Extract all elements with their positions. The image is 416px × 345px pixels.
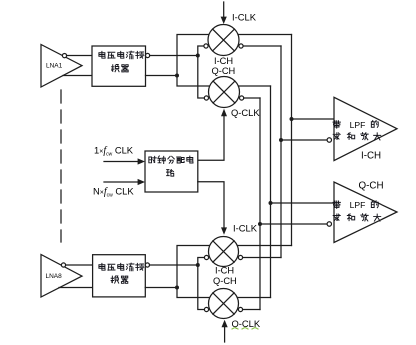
wire M1 out- to bus B [243, 45, 281, 47]
svg-text:Q-CLK: Q-CLK [231, 107, 260, 118]
wire bus D tap to Q amp [260, 223, 327, 225]
dashed separator (channels 2..7 omitted) [60, 90, 62, 242]
wire bus A tap to I amp [292, 118, 335, 120]
mixer M4 (Q mixer, channel 8) [209, 289, 239, 319]
inversion bubble on LNA1 output [62, 54, 66, 58]
amplifier LNA8 [41, 255, 82, 298]
amplifier LNA1 [41, 45, 82, 88]
wire M4 out- to bus D [243, 309, 260, 311]
inversion bubble on LNA8 output [61, 263, 65, 267]
bubble M3 input- [204, 255, 208, 259]
svg-text:Q-CH: Q-CH [359, 181, 384, 192]
wire M2 out+ to bus C [238, 85, 270, 87]
bubble M4 output- [238, 307, 242, 311]
wire U2 out- to net V3 [145, 287, 177, 289]
clock distribution box U3 (时钟分配电路) [145, 151, 198, 192]
junction node bus C tap [269, 201, 273, 205]
wire net V1 (to mixers M1/M2 plus inputs) [177, 35, 210, 87]
wire M3 out- to bus B [243, 257, 281, 259]
bubble M3 output- [238, 255, 242, 259]
bubble I amp inverting input [327, 138, 331, 142]
wire bus A (I+ summing bus) [291, 35, 293, 246]
inversion bubble on U2 output [145, 263, 149, 267]
junction node U1out+/V2 [196, 54, 200, 58]
summing amp U4 (I channel) [334, 97, 397, 160]
wire I-CLK into M1 [223, 2, 225, 17]
mixer M2 (Q mixer, channel 1) [209, 77, 240, 108]
svg-text:I-CH: I-CH [215, 266, 234, 276]
green squiggle under bottom Q-CLK [232, 328, 258, 330]
svg-text:LPF: LPF [350, 200, 366, 210]
wire U1 out- to net V1 [146, 75, 178, 77]
wire Q-CLK from clock box up into M2 [198, 116, 224, 160]
bubble M4 input- [204, 307, 208, 311]
junction node U1out-/V1 [175, 74, 179, 78]
wire U1 out+ to net V2 [150, 55, 198, 57]
label U5 text 带 LPF 的求和放大 [333, 201, 340, 208]
arrowhead CLK input N [138, 179, 145, 185]
wire LNA8 out- to converter U2 [59, 287, 93, 289]
wire net V3 (to mixers M3/M4 plus inputs) [177, 246, 210, 298]
summing amp U5 (Q channel) [334, 182, 397, 243]
svg-text:I-CH: I-CH [361, 151, 381, 162]
svg-text:I-CH: I-CH [214, 56, 233, 66]
wire M3 out+ to bus A [237, 245, 291, 247]
wire U2 out+ to net V4 [150, 264, 198, 266]
wire LNA1 out+ to converter U1 [67, 55, 92, 57]
label U1 text 电压电流转 / 换器 [99, 51, 105, 58]
bubble M2 output- [240, 96, 244, 100]
wire M1 out+ to bus A [238, 34, 292, 36]
junction node U2out-/V3 [175, 286, 179, 290]
svg-text:LNA1: LNA1 [46, 63, 63, 70]
arrowhead Q-CLK into M2 [221, 109, 227, 116]
mixer M1 (I mixer, channel 1) [208, 25, 239, 56]
wire CLK input 1 [104, 161, 138, 163]
junction node bus D tap [258, 222, 262, 226]
wire net V4 (to mixers M3/M4 minus inputs) [198, 258, 205, 310]
svg-text:I-CLK: I-CLK [233, 223, 258, 234]
bubble Q amp inverting input [327, 222, 331, 226]
mixer M3 (I mixer, channel 8) [209, 237, 239, 267]
wire bus C tap to Q amp [271, 202, 335, 204]
bubble M1 output- [239, 44, 243, 48]
bubble M1 input- [204, 44, 208, 48]
junction node bus B tap [279, 138, 283, 142]
svg-text:1×fcw CLK: 1×fcw CLK [94, 145, 134, 158]
wire bus B (I- summing bus) [280, 46, 282, 258]
wire I-CLK from clock box down to M3 [198, 182, 224, 228]
svg-text:N×fcw CLK: N×fcw CLK [93, 186, 134, 199]
svg-text:LNA8: LNA8 [46, 273, 63, 280]
wire bus D (Q- summing bus) [259, 98, 261, 310]
svg-text:I-CLK: I-CLK [232, 12, 257, 23]
V-I converter U1 (电压电流转换器) [92, 46, 146, 86]
label U3 text 时钟分配电 / 路 [149, 156, 156, 163]
wire LNA8 out+ to converter U2 [66, 264, 93, 266]
arrowhead CLK input 1 [138, 158, 145, 164]
wire bus C (Q+ summing bus) [270, 86, 272, 298]
arrowhead I-CLK into M3 [221, 227, 227, 234]
wire net V2 (to mixers M1/M2 minus inputs) [198, 46, 205, 98]
wire CLK input N [104, 181, 138, 183]
arrowhead I-CLK into M1 [221, 17, 227, 24]
wire M4 out+ to bus C [237, 297, 270, 299]
svg-text:Q-CH: Q-CH [213, 276, 237, 286]
bubble M2 input- [204, 96, 208, 100]
junction node bus A tap [290, 117, 294, 121]
svg-text:LPF: LPF [350, 120, 366, 130]
junction node U2out+/V4 [196, 263, 200, 267]
wire M2 out- to bus D [244, 97, 260, 99]
label U4 text 带 LPF 的求和放大 [333, 121, 340, 128]
arrowhead Q-CLK into M4 [222, 320, 228, 327]
inversion bubble on U1 output [146, 53, 150, 57]
wire LNA1 out- to converter U1 [63, 75, 92, 77]
V-I converter U2 (电压电流转换器) [93, 255, 146, 297]
label U2 text 电压电流转 / 换器 [99, 263, 105, 270]
svg-text:Q-CH: Q-CH [212, 66, 236, 76]
wire Q-CLK into M4 from bottom [224, 328, 226, 343]
wire bus B tap to I amp [281, 139, 327, 141]
